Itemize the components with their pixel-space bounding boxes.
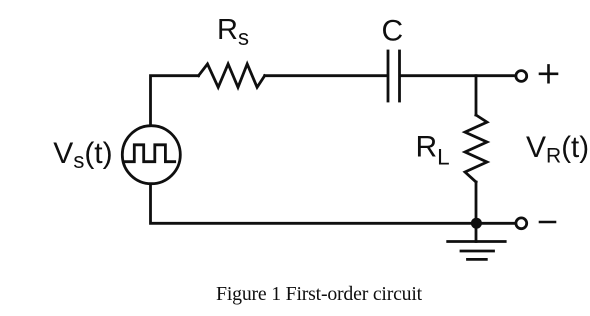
svg-text:RL: RL	[416, 131, 450, 170]
resistor Rs	[199, 64, 265, 87]
svg-text:Vs(t): Vs(t)	[53, 137, 112, 173]
ground	[448, 223, 506, 259]
svg-text:Figure 1 First-order circuit: Figure 1 First-order circuit	[216, 283, 423, 305]
terminal + (open circle)	[516, 71, 527, 82]
wire from source top to resistor Rs	[151, 76, 199, 126]
junction dot	[471, 218, 482, 229]
voltage source Vs circle	[122, 126, 180, 184]
node A junction at top of RL	[475, 76, 478, 115]
terminal - (open circle)	[516, 218, 527, 229]
wire from C to + terminal	[401, 74, 514, 77]
wire from Rs to capacitor C	[265, 74, 387, 77]
minus sign	[540, 221, 555, 224]
wire from node to - terminal	[476, 222, 514, 225]
plus sign	[540, 65, 557, 82]
capacitor C	[388, 51, 400, 101]
resistor RL	[465, 115, 487, 182]
svg-text:VR(t): VR(t)	[526, 131, 589, 167]
square wave symbol inside source	[126, 145, 175, 162]
wire from RL to bottom node	[475, 182, 478, 223]
svg-text:Rs: Rs	[217, 14, 249, 50]
svg-text:C: C	[382, 15, 404, 48]
wire from source bottom along bottom rail	[151, 184, 477, 223]
